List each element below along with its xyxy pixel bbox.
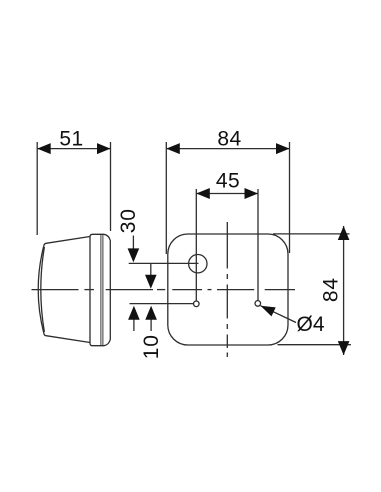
arrowhead diameter leader [261, 306, 276, 317]
dimension 10 upper tail [150, 263, 152, 276]
dimension 45 left extension line [195, 189, 197, 301]
arrowhead 51 right [97, 143, 111, 154]
arrowhead 45 left [196, 188, 210, 199]
side view flange seam line 2 [102, 234, 104, 345]
front view horizontal centerline [32, 289, 296, 291]
arrowhead 10 down [145, 275, 157, 289]
arrowhead 84 right down [338, 341, 350, 355]
arrowhead 30 down [128, 248, 140, 262]
side view flange outline [90, 234, 110, 345]
arrowhead 10 up [145, 306, 157, 320]
arrowhead 84 right up [338, 226, 350, 240]
side view flange seam line 1 [100, 234, 102, 345]
arrowhead 30 up [128, 306, 140, 320]
hole centre line through small holes [130, 303, 194, 305]
arrowhead 84 top right [276, 143, 290, 154]
svg-text:Ø4: Ø4 [297, 313, 325, 336]
small mounting hole right [255, 301, 261, 307]
arrowhead 84 top left [166, 143, 180, 154]
dimension 10 lower tail [150, 319, 152, 332]
big circle cable hole [189, 255, 207, 273]
dimension 84 right top extension line [273, 233, 350, 235]
svg-text:30: 30 [117, 208, 140, 233]
leader line for diameter 4 [261, 306, 297, 323]
dimension 84 top right extension line [289, 142, 291, 253]
front view vertical centerline [226, 222, 228, 357]
side view lens cone outline [38, 237, 90, 343]
svg-text:84: 84 [320, 277, 343, 302]
small mounting hole left [194, 301, 200, 307]
dimension 45 line [196, 193, 258, 195]
side view lens front face inner arc [41, 247, 45, 332]
dimension 84 top left extension line [165, 142, 167, 254]
svg-text:51: 51 [59, 128, 83, 151]
dimension 51 right extension line [110, 142, 112, 231]
dimension 84 right bottom extension line [278, 344, 351, 346]
dimension 51 line [37, 148, 110, 150]
svg-text:10: 10 [140, 334, 163, 359]
dimension 30 line upper tail [132, 236, 134, 251]
svg-text:84: 84 [217, 128, 241, 151]
dimension 84 top line [166, 148, 289, 150]
dimension 30 line lower tail [133, 319, 135, 332]
arrowhead 51 left [37, 143, 51, 154]
hole centre line through big circle [129, 262, 199, 264]
dimension 51 left extension line [36, 142, 38, 235]
dimension 45 right extension line [257, 189, 259, 301]
dimension 84 right line [343, 226, 345, 355]
svg-text:45: 45 [216, 169, 240, 192]
arrowhead 45 right [245, 188, 259, 199]
front view rounded square body [168, 234, 288, 345]
